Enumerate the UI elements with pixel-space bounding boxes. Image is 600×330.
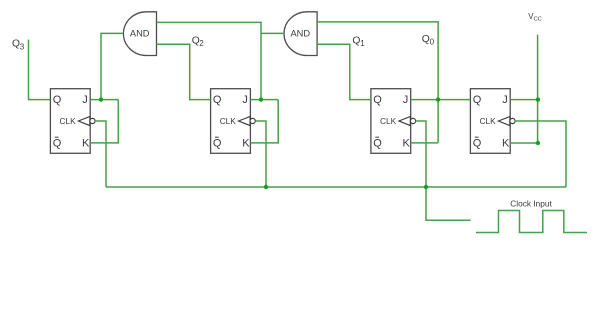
svg-text:Q: Q [473,137,482,149]
svg-text:Q: Q [213,137,222,149]
wire FF1 K pin [411,142,438,144]
svg-text:CLK: CLK [480,116,497,126]
svg-text:J: J [242,94,248,106]
wire Q2 from FF2 Q to AND U1 lower input [157,44,211,99]
wire clock bus [106,186,566,188]
svg-text:AND: AND [130,29,150,39]
svg-text:K: K [242,137,250,149]
wire FF3 J pin [90,99,118,101]
node FF0 J junction (VCC) [536,97,540,101]
svg-text:Q: Q [53,94,62,106]
svg-text:Q: Q [53,137,62,149]
node clock bus FF1 junction [424,185,428,189]
label Q2 [192,35,205,48]
node FF1 J junction (Q0) [436,97,440,101]
node clock bus FF2 junction [264,185,268,189]
wire FF1 CLK to clock bus and clock input stub [416,121,471,220]
svg-text:K: K [502,137,510,149]
svg-text:Q: Q [373,94,382,106]
node FF3 J junction [99,97,103,101]
label VCC [528,12,542,23]
flip-flop FF3 [50,89,95,154]
svg-text:J: J [403,94,409,106]
svg-text:CLK: CLK [220,116,237,126]
svg-text:K: K [403,137,411,149]
svg-text:1: 1 [360,39,365,48]
svg-text:CLK: CLK [60,116,77,126]
wire FF2 J-K tie [250,100,278,143]
svg-text:3: 3 [20,43,25,52]
svg-text:J: J [502,94,508,106]
wire FF2 CLK to clock bus [255,121,266,187]
AND gate U1 [123,12,156,56]
svg-text:CC: CC [534,16,542,22]
wire FF3 CLK to clock bus [95,121,106,187]
flip-flop FF0 [470,89,515,154]
svg-text:K: K [82,137,90,149]
wire FF0 CLK to clock riser [515,121,566,187]
label Q3 [12,39,25,52]
wire Q0 node to AND U2 upper input and FF1 K [317,22,438,143]
wire Q1 from FF1 Q to AND U2 lower input [317,44,371,99]
wire FF0 J pin [510,99,538,101]
wire AND U2 output [261,32,283,34]
label Q1 [352,35,365,48]
wire FF2 J pin [250,99,278,101]
svg-text:Q: Q [373,137,382,149]
svg-text:CLK: CLK [380,116,397,126]
wire FF0 K pin [510,142,538,144]
wire VCC rail [537,35,539,143]
svg-text:Q: Q [473,94,482,106]
svg-text:0: 0 [430,38,435,47]
clock waveform [476,211,587,233]
svg-text:Q: Q [213,94,222,106]
node FF2 J junction [259,97,263,101]
svg-text:2: 2 [199,39,204,48]
wire AND U1 output to FF3 J node [101,33,123,99]
wire Q3 output of FF3 [29,40,51,100]
svg-text:AND: AND [290,29,310,39]
flip-flop FF1 [371,89,416,154]
wire Q0 from FF0 Q to FF1 J [411,99,471,101]
node FF0 K junction (VCC) [536,141,540,145]
flip-flop FF2 [211,89,256,154]
svg-text:J: J [82,94,88,106]
wire FF3 J-K tie [90,100,118,143]
wire AND U2 output node to FF2 J and AND U1 upper input [157,22,262,99]
svg-text:Clock Input: Clock Input [510,198,552,208]
label Q0 [422,34,435,46]
AND gate U2 [284,12,317,56]
